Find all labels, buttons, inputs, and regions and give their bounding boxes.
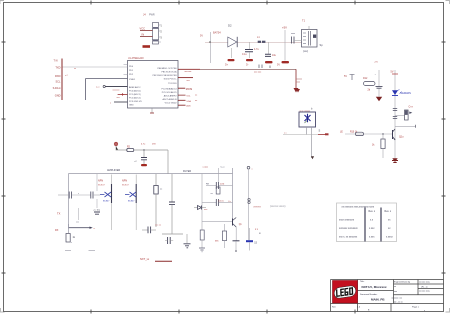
svg-text:BAT54: BAT54 bbox=[213, 31, 221, 35]
svg-text:xx xxxx xxxx,: xx xxxx xxxx, bbox=[419, 282, 431, 284]
svg-text:BC847: BC847 bbox=[128, 201, 135, 203]
svg-text:xxxx xxxxxxxx: xxxx xxxxxxxx bbox=[339, 219, 355, 222]
svg-text:PB5 SCK/OC1A: PB5 SCK/OC1A bbox=[161, 71, 177, 74]
svg-text:x: x bbox=[424, 310, 425, 312]
svg-text:PB2 SS/OC1B MOSI PB3: PB2 SS/OC1B MOSI PB3 bbox=[153, 75, 178, 77]
svg-text:D-: D- bbox=[246, 64, 249, 67]
svg-text:SDA: SDA bbox=[186, 100, 191, 103]
svg-text:ADC7 AGND B: ADC7 AGND B bbox=[163, 98, 178, 101]
svg-text:NPN: NPN bbox=[98, 180, 103, 183]
svg-text:D2: D2 bbox=[228, 24, 232, 28]
svg-text:25V: 25V bbox=[152, 144, 156, 146]
svg-text:R12: R12 bbox=[363, 77, 368, 80]
svg-text:xxx x. xx xxxxxxx: xxx x. xx xxxxxxx bbox=[339, 236, 358, 239]
svg-text:xx xxxxxxx xxxx,xxxxxxxx xxxx: xx xxxxxxx xxxx,xxxxxxxx xxxx bbox=[342, 205, 375, 208]
svg-text:Rev:: Rev: bbox=[332, 307, 337, 309]
svg-text:MOSI: MOSI bbox=[186, 88, 193, 91]
svg-text:IN: IN bbox=[142, 33, 145, 37]
svg-text:TX: TX bbox=[57, 212, 61, 216]
svg-text:xx x x xxxxx: xx x x xxxxx bbox=[300, 111, 311, 113]
svg-text:GND: GND bbox=[129, 105, 134, 107]
svg-text:NXT4.5, Mxxxxxx: NXT4.5, Mxxxxxx bbox=[362, 285, 387, 289]
svg-text:xxx: xxx bbox=[394, 291, 397, 293]
svg-text:XTAL1: XTAL1 bbox=[129, 78, 136, 81]
svg-text:Sp: Sp bbox=[320, 43, 324, 47]
svg-text:Q1x: Q1x bbox=[399, 136, 404, 139]
svg-text:xxxxxxx xxxxxxxx: xxxxxxx xxxxxxxx bbox=[339, 227, 358, 230]
svg-text:U1 ATMEGA48: U1 ATMEGA48 bbox=[128, 57, 144, 60]
svg-text:+5V: +5V bbox=[374, 62, 378, 64]
svg-text:x.xxxx: x.xxxx bbox=[386, 236, 393, 239]
svg-text:TX1 RX0: TX1 RX0 bbox=[168, 83, 177, 85]
svg-text:SCL: SCL bbox=[55, 80, 61, 84]
svg-text:(C9): (C9) bbox=[220, 183, 225, 185]
svg-text:S: S bbox=[319, 129, 321, 133]
svg-text:PC3 GND VS: PC3 GND VS bbox=[129, 101, 142, 103]
svg-text:BC847: BC847 bbox=[103, 201, 110, 203]
svg-text:5V: 5V bbox=[277, 64, 280, 67]
svg-text:BC847: BC847 bbox=[122, 185, 129, 187]
svg-text:PC2 (ADC2): PC2 (ADC2) bbox=[129, 97, 141, 100]
svg-text:5V: 5V bbox=[391, 71, 394, 74]
svg-text:Engineer/Drawn by: Engineer/Drawn by bbox=[394, 280, 410, 283]
svg-text:PC1 (ADC1): PC1 (ADC1) bbox=[129, 93, 141, 96]
svg-text:(xxx): (xxx) bbox=[303, 50, 308, 53]
svg-text:x.x(x): x.x(x) bbox=[203, 166, 209, 168]
svg-text:xx: xx bbox=[74, 68, 76, 70]
svg-text:NXT_xx: NXT_xx bbox=[140, 257, 150, 261]
svg-text:PB4/MISO OC2 PB0: PB4/MISO OC2 PB0 bbox=[157, 68, 177, 70]
svg-text:xx: xx bbox=[394, 286, 396, 288]
svg-text:10u: 10u bbox=[272, 54, 277, 57]
svg-text:xx xxxx x xx: xx xxxx x xx bbox=[392, 298, 403, 300]
svg-text:x: x bbox=[78, 193, 79, 195]
svg-text:+C: +C bbox=[134, 161, 137, 163]
svg-text:+C 10u: +C 10u bbox=[93, 210, 101, 212]
svg-text:Document Number:: Document Number: bbox=[360, 293, 378, 296]
svg-text:(C10): (C10) bbox=[218, 200, 224, 202]
svg-text:S.DA k: S.DA k bbox=[53, 86, 62, 90]
svg-text:REDGRN: REDGRN bbox=[401, 92, 412, 95]
svg-text:Rev. x: Rev. x bbox=[385, 210, 392, 213]
svg-text:RXD: RXD bbox=[55, 74, 61, 78]
svg-text:ADC6 AREF2: ADC6 AREF2 bbox=[164, 95, 178, 98]
svg-text:TXD: TXD bbox=[55, 66, 60, 70]
svg-text:Title:: Title: bbox=[360, 280, 365, 283]
svg-text:PC5 SCL/ADC5: PC5 SCL/ADC5 bbox=[162, 91, 178, 94]
svg-text:Rev. x: Rev. x bbox=[369, 210, 376, 213]
svg-text:AMPLIFIER: AMPLIFIER bbox=[107, 169, 120, 172]
svg-text:x.xxx: x.xxx bbox=[369, 227, 375, 230]
svg-text:x-x-x-x: x-x-x-x bbox=[254, 205, 262, 208]
svg-text:FILTER: FILTER bbox=[183, 170, 191, 173]
svg-text:LE: LE bbox=[340, 132, 343, 134]
svg-text:x.xxx: x.xxx bbox=[369, 236, 375, 239]
svg-text:xFx - xx: xFx - xx bbox=[421, 286, 428, 288]
svg-text:+5V: +5V bbox=[282, 26, 287, 30]
svg-text:VCC2 GND2: VCC2 GND2 bbox=[165, 103, 178, 105]
svg-text:xxx: xxx bbox=[76, 222, 79, 224]
svg-text:xxx xx: xxx xx bbox=[155, 225, 162, 227]
svg-text:GND: GND bbox=[55, 94, 61, 98]
svg-text:5V: 5V bbox=[200, 35, 203, 38]
svg-text:xxx xxx: xxx xxx bbox=[254, 71, 262, 73]
svg-text:PC4 SDA/ADC4: PC4 SDA/ADC4 bbox=[161, 88, 177, 91]
svg-text:xx xxxx xxxx,: xx xxxx xxxx, bbox=[419, 291, 431, 293]
svg-text:T Kl: T Kl bbox=[54, 60, 59, 63]
svg-text:xxx xxx: xxx xxx bbox=[185, 71, 193, 73]
svg-text:MAIN_PB: MAIN_PB bbox=[371, 298, 385, 302]
svg-text:0.1u: 0.1u bbox=[242, 53, 247, 56]
svg-text:(x) - xx xx: (x) - xx xx bbox=[394, 302, 403, 304]
svg-text:BC847: BC847 bbox=[98, 185, 105, 187]
svg-text:4.7u: 4.7u bbox=[254, 48, 259, 51]
svg-text:SCK2 PD5 D-: SCK2 PD5 D- bbox=[164, 79, 177, 81]
svg-text:VCC: VCC bbox=[140, 26, 146, 30]
svg-text:5V: 5V bbox=[344, 75, 347, 78]
svg-text:PWR: PWR bbox=[149, 14, 155, 17]
svg-text:PC0 (ADC0): PC0 (ADC0) bbox=[129, 90, 141, 93]
svg-text:AREF AVCC: AREF AVCC bbox=[129, 86, 141, 89]
svg-text:Page x: Page x bbox=[412, 307, 420, 309]
svg-text:x: x bbox=[71, 242, 72, 244]
svg-text:NPN: NPN bbox=[122, 180, 127, 183]
svg-text:x x: x x bbox=[284, 133, 287, 135]
svg-text:(xxxxxx xxxxx): (xxxxxx xxxxx) bbox=[270, 205, 286, 208]
svg-text:xxxxxxx: xxxxxxx bbox=[113, 90, 120, 92]
svg-text:RX: RX bbox=[55, 229, 59, 232]
